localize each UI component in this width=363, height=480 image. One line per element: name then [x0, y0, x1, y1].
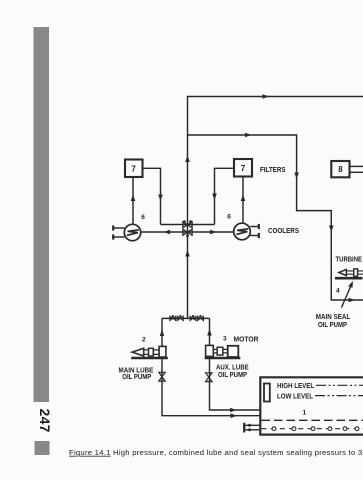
svg-text:2: 2 — [142, 337, 146, 344]
svg-text:COOLERS: COOLERS — [268, 226, 299, 235]
svg-text:6: 6 — [227, 214, 231, 221]
svg-text:Figure 14.1 High pressure, com: Figure 14.1 High pressure, combined lube… — [69, 448, 363, 457]
svg-text:8: 8 — [338, 165, 343, 174]
svg-text:TURBINE: TURBINE — [336, 255, 363, 264]
svg-text:OIL PUMP: OIL PUMP — [218, 370, 247, 379]
svg-text:1: 1 — [303, 410, 307, 417]
svg-text:4: 4 — [336, 288, 340, 295]
svg-text:MOTOR: MOTOR — [234, 335, 260, 344]
svg-text:LOW LEVEL: LOW LEVEL — [277, 391, 314, 400]
svg-text:FILTERS: FILTERS — [260, 165, 286, 174]
svg-text:247: 247 — [37, 409, 53, 433]
svg-text:7: 7 — [241, 164, 246, 173]
svg-text:OIL PUMP: OIL PUMP — [122, 372, 151, 381]
svg-text:3: 3 — [223, 336, 227, 343]
svg-text:HIGH LEVEL: HIGH LEVEL — [277, 381, 315, 390]
svg-text:OIL PUMP: OIL PUMP — [318, 320, 347, 329]
svg-text:7: 7 — [131, 164, 136, 173]
svg-text:6: 6 — [141, 214, 145, 221]
